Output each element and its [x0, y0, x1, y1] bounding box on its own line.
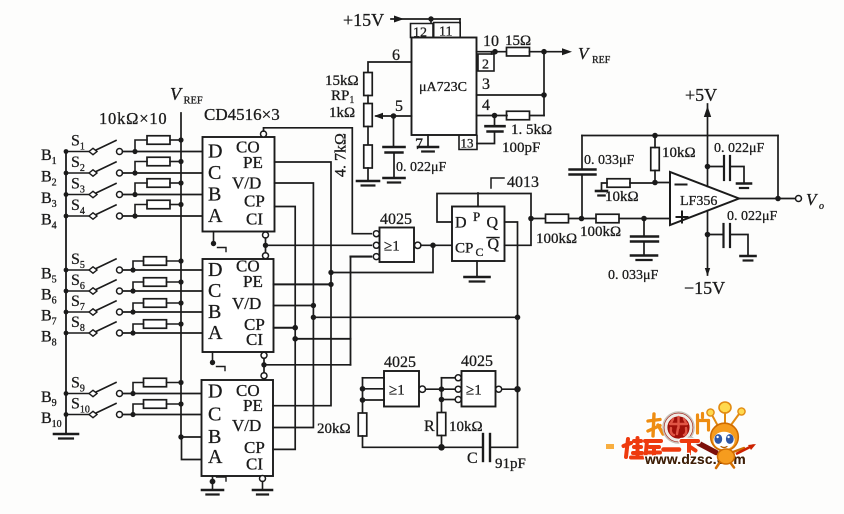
- resistor 10k (B5): [144, 257, 167, 266]
- junction B10 node: [130, 412, 135, 417]
- junction U5 out: [430, 243, 436, 249]
- svg-text:1kΩ: 1kΩ: [329, 105, 355, 121]
- wire node to - input: [655, 182, 670, 184]
- junction rail / 10k: [652, 133, 658, 139]
- junction chain U2-U3: [261, 362, 266, 367]
- junction VREF rail (B10): [178, 401, 183, 406]
- svg-text:CI: CI: [246, 455, 263, 474]
- junction bus B4: [64, 214, 69, 219]
- junction B7 node: [130, 309, 135, 314]
- op-amp U7 LF356: [670, 172, 739, 225]
- svg-text:REF: REF: [184, 96, 203, 107]
- svg-text:+5V: +5V: [685, 85, 717, 105]
- svg-text:91pF: 91pF: [495, 456, 526, 472]
- wire S2 to counter: [123, 172, 203, 174]
- svg-text:13: 13: [461, 136, 474, 151]
- wire S4 to counter: [123, 215, 203, 217]
- junction V/D bus (U2): [311, 303, 316, 308]
- resistor 10k (B10): [144, 400, 167, 409]
- power -15V: [707, 211, 709, 275]
- pin box 13: [459, 136, 477, 151]
- wire 4013 C to ground: [476, 261, 478, 276]
- wire V/D bus: [273, 183, 313, 428]
- junction pin10/pin2: [492, 49, 498, 55]
- wire CP bus: [273, 207, 295, 450]
- wire U8 input column: [362, 378, 364, 413]
- switch S7: [66, 301, 123, 315]
- wire resistor left (B7): [133, 303, 144, 312]
- flip-flop U6 4013: [452, 207, 505, 262]
- junction B1 node: [132, 149, 137, 154]
- svg-text:1. 5kΩ: 1. 5kΩ: [511, 122, 552, 138]
- wire resistor left (B10): [133, 404, 144, 415]
- wire VREF node to 1.5k: [530, 115, 545, 117]
- junction rail bottom: [178, 434, 183, 439]
- wire pin 10: [477, 51, 508, 53]
- wire U9 in1: [442, 377, 456, 379]
- resistor 15 Ohm: [507, 47, 530, 56]
- resistor 10k (B6): [144, 278, 167, 287]
- svg-text:0. 033μF: 0. 033μF: [584, 153, 635, 168]
- pin box 11: [434, 23, 461, 40]
- resistor 15k: [364, 73, 373, 96]
- wire PE bus: [273, 162, 331, 406]
- junction VREF rail (B8): [178, 321, 183, 326]
- svg-text:0. 022μF: 0. 022μF: [714, 141, 765, 156]
- svg-text:0. 022μF: 0. 022μF: [727, 209, 778, 224]
- resistor 10k (B1): [147, 136, 170, 145]
- wire resistor left (B1): [135, 140, 147, 152]
- svg-text:+15V: +15V: [343, 10, 384, 30]
- ground (4.7k): [357, 181, 379, 186]
- wire U8 in1: [363, 377, 385, 379]
- capacitor C 91pF: [483, 434, 518, 461]
- pin circle U5 in1: [373, 231, 379, 237]
- wire CI branch: [295, 338, 350, 340]
- wire pin 3: [477, 94, 545, 96]
- junction B5 node: [130, 267, 135, 272]
- resistor 10k (B3): [147, 179, 170, 188]
- wire Q-bar to V/D bus: [313, 316, 517, 318]
- wire resistor to VREF rail (B4): [170, 204, 181, 206]
- wire Q-bar to D loop: [437, 194, 531, 223]
- wire Q out feedback: [505, 222, 518, 447]
- capacitor 0.033uF (2): [631, 219, 658, 255]
- junction chain U1-U2: [263, 243, 268, 248]
- wire 10k to - node: [654, 171, 656, 183]
- junction U9 col a: [439, 386, 445, 392]
- capacitor 0.033uF (1): [570, 136, 596, 219]
- potentiometer RP1: [364, 104, 373, 127]
- junction PE bus (U2): [328, 282, 333, 287]
- wire gate U5 input 3 drop: [350, 257, 352, 365]
- wire R to RC line: [441, 436, 443, 448]
- junction 100k mid: [579, 216, 585, 222]
- svg-text:15kΩ: 15kΩ: [325, 73, 359, 89]
- svg-text:CP: CP: [455, 241, 473, 257]
- wire U8 out to U9: [426, 388, 456, 390]
- junction U8 inputs a: [360, 386, 366, 392]
- junction VREF rail (B3): [178, 180, 183, 185]
- wire resistor left (B2): [135, 162, 147, 174]
- wire S8 to counter: [123, 332, 203, 334]
- pin circle U5 in3: [373, 254, 379, 260]
- wire VREF node drop: [543, 52, 545, 116]
- wire CP (U2): [274, 327, 296, 329]
- svg-text:B: B: [208, 426, 221, 448]
- switch S4: [66, 205, 123, 219]
- capacitor 0.022uF (1): [708, 156, 745, 183]
- capacitor 0.022uF (723): [384, 116, 405, 177]
- wire P stub: [477, 193, 479, 207]
- wire U5 out to 4013 CP: [421, 244, 452, 246]
- wiper arrow RP1: [376, 115, 394, 117]
- wire resistor left (B5): [133, 261, 144, 270]
- svg-text:C: C: [208, 404, 221, 426]
- junction pin 4: [492, 113, 498, 119]
- wire PE (U2): [274, 283, 332, 285]
- node PL stub (U1): [211, 232, 226, 252]
- junction bus B8: [64, 331, 69, 336]
- svg-text:D: D: [208, 259, 222, 281]
- svg-text:≥1: ≥1: [384, 239, 400, 255]
- junction bus B9: [64, 391, 69, 396]
- ground (cap1): [737, 184, 751, 189]
- wire resistor to VREF rail (B7): [167, 302, 182, 304]
- junction bus B3: [64, 192, 69, 197]
- resistor 10k (B4): [147, 200, 170, 209]
- junction VREF rail (B2): [178, 159, 183, 164]
- wire S9 to counter: [123, 393, 202, 395]
- svg-text:V/D: V/D: [232, 294, 261, 313]
- svg-text:15Ω: 15Ω: [505, 33, 531, 49]
- wire U8 in3: [363, 399, 385, 401]
- junction VREF rail (B1): [178, 137, 183, 142]
- wire chain from Q-bar node: [531, 218, 545, 220]
- wire pin 7: [427, 135, 429, 146]
- svg-text:V/D: V/D: [232, 174, 261, 193]
- svg-text:CI: CI: [246, 210, 263, 229]
- svg-text:C: C: [467, 450, 478, 467]
- svg-text:C: C: [476, 245, 484, 259]
- svg-text:3: 3: [482, 76, 490, 93]
- junction U9 col b: [439, 397, 445, 403]
- wire S6 to counter: [123, 290, 203, 292]
- junction Q-bar / chain: [528, 216, 534, 222]
- pin circle U9 in1: [455, 375, 461, 381]
- switch S6: [66, 280, 123, 294]
- ground (input bus): [54, 434, 78, 439]
- resistor 10k (to gnd): [607, 179, 630, 188]
- svg-text:R: R: [424, 418, 435, 435]
- ground (4013): [465, 277, 490, 282]
- svg-text:100kΩ: 100kΩ: [580, 224, 621, 240]
- wire chain U2-U3 to CI bus: [264, 364, 351, 366]
- svg-text:4013: 4013: [507, 174, 539, 191]
- junction RC line: [438, 444, 445, 451]
- junction B2 node: [132, 170, 137, 175]
- junction B6 node: [130, 288, 135, 293]
- wire resistor left (B8): [133, 324, 144, 333]
- svg-text:0. 033μF: 0. 033μF: [608, 268, 659, 283]
- junction bus B10: [64, 412, 69, 417]
- svg-text:10kΩ: 10kΩ: [662, 145, 696, 161]
- label 4013: [491, 178, 504, 188]
- ground (U3 right): [253, 490, 272, 495]
- wire pin11 stub: [459, 19, 461, 23]
- resistor 10k (op-amp fb): [651, 148, 660, 171]
- junction Q-bar / gate U9 out: [514, 386, 520, 392]
- wire 15 Ohm to VREF node: [530, 51, 545, 53]
- svg-text:P: P: [473, 209, 480, 224]
- wire chain to gate U5 input 2: [266, 244, 372, 246]
- resistor 10k (B9): [144, 378, 167, 387]
- wire S10 to counter: [123, 414, 202, 416]
- wire resistor to VREF rail (B8): [167, 323, 182, 325]
- capacitor 100pF: [477, 116, 505, 144]
- node VREF output: [544, 51, 566, 53]
- svg-text:100pF: 100pF: [502, 140, 540, 156]
- wire U8 in2: [363, 388, 385, 390]
- svg-text:10kΩ: 10kΩ: [449, 419, 483, 435]
- junction +15V / pin 12-11: [428, 16, 433, 21]
- svg-text:10kΩ×10: 10kΩ×10: [99, 109, 167, 128]
- wire Q-bar out: [505, 219, 532, 246]
- svg-text:≥1: ≥1: [389, 383, 405, 399]
- wire resistor to VREF rail (B2): [170, 161, 181, 163]
- pin circle U5 out: [415, 242, 421, 248]
- svg-text:μA723C: μA723C: [419, 80, 467, 95]
- switch S2: [66, 162, 123, 176]
- wire U9 in3: [442, 399, 456, 401]
- pin circle U9 in2: [455, 386, 461, 392]
- svg-text:PE: PE: [243, 396, 263, 415]
- pin circle U9 out: [496, 386, 502, 392]
- wire U9 out: [502, 388, 518, 390]
- pin circle (U2 bottom): [261, 352, 267, 358]
- junction B3 node: [132, 192, 137, 197]
- junction VREF rail (B5): [178, 258, 183, 263]
- junction bus B1: [64, 149, 69, 154]
- svg-text:100kΩ: 100kΩ: [536, 231, 577, 247]
- net VREF rail: [180, 113, 182, 437]
- pin box 12: [411, 24, 434, 41]
- junction bus B6: [64, 289, 69, 294]
- junction pin 3: [541, 92, 547, 98]
- wire rail to A pin (U3): [182, 437, 202, 460]
- svg-text:LF356: LF356: [680, 194, 717, 209]
- nor gate U8 4025: [384, 371, 419, 407]
- resistor 20k: [358, 413, 367, 436]
- wire resistor left (B6): [133, 282, 144, 291]
- switch S5: [66, 259, 123, 273]
- nor gate U5 4025: [380, 228, 415, 263]
- ground (0.022 723): [384, 178, 405, 183]
- wire 20k to RC line: [363, 436, 483, 447]
- svg-text:B: B: [208, 301, 221, 323]
- watermark logo www.dzsc.com: [606, 402, 756, 468]
- node PL stub + ground (U3): [210, 476, 226, 489]
- wire S1 to counter: [123, 151, 203, 153]
- svg-text:CI: CI: [246, 330, 263, 349]
- junction CP bus (U2): [292, 325, 298, 331]
- junction + input / cap: [641, 216, 647, 222]
- capacitor 0.022uF (2): [708, 224, 749, 255]
- resistor 100k (1): [546, 214, 569, 223]
- svg-text:CP: CP: [244, 192, 265, 211]
- svg-text:A: A: [208, 446, 223, 468]
- switch S8: [66, 322, 123, 336]
- junction B8 node: [130, 330, 135, 335]
- junction V/D bus / Q-bar: [311, 315, 316, 320]
- junction bus B2: [64, 171, 69, 176]
- wire rail to 10k: [654, 136, 656, 148]
- svg-text:4025: 4025: [384, 354, 416, 371]
- pin circle (U3 bottom): [260, 476, 266, 482]
- svg-text:B: B: [208, 184, 221, 206]
- wire V/D (U2): [274, 305, 314, 307]
- wire chain U1-U2: [265, 238, 267, 253]
- junction VREF rail (B6): [178, 279, 183, 284]
- junction bus B5: [64, 268, 69, 273]
- svg-text:20kΩ: 20kΩ: [317, 421, 351, 437]
- pin circle (U3 top): [261, 373, 267, 379]
- svg-text:D: D: [208, 381, 222, 403]
- wire rail to B pin (U3): [181, 436, 202, 438]
- svg-text:4025: 4025: [380, 211, 412, 228]
- junction - input node: [652, 180, 658, 186]
- junction VREF rail (B9): [178, 380, 183, 385]
- switch S10: [66, 404, 123, 418]
- junction U8 inputs b: [360, 397, 366, 403]
- junction VREF node: [541, 49, 547, 55]
- svg-text:2: 2: [482, 58, 489, 73]
- wire U5 out to PE bus: [331, 245, 433, 272]
- svg-text:C: C: [208, 280, 221, 302]
- svg-text:PE: PE: [243, 153, 263, 172]
- terminal Vo: [796, 196, 802, 202]
- junction output / feedback: [775, 196, 781, 202]
- wire 15k-RP1: [367, 96, 369, 105]
- wire S7 to counter: [123, 311, 203, 313]
- pin circle U5 in2: [373, 242, 379, 248]
- wire output: [739, 198, 796, 200]
- regulator U4 uA723C: [412, 38, 477, 136]
- switch S9: [66, 383, 123, 397]
- svg-text:D: D: [455, 215, 467, 232]
- switch S3: [66, 184, 123, 198]
- wire pin 6: [368, 62, 412, 73]
- pin circle (U2 top): [263, 253, 269, 259]
- wire gate U5 input 3: [351, 256, 372, 258]
- ground (cap2): [741, 256, 756, 261]
- svg-text:Q: Q: [488, 236, 500, 253]
- svg-text:4025: 4025: [461, 353, 493, 370]
- counter U3 CD4516: [202, 380, 274, 476]
- junction PE bus / gate out: [328, 270, 333, 275]
- junction bus B7: [64, 310, 69, 315]
- node PL stub (U2): [210, 352, 225, 371]
- svg-text:A: A: [208, 205, 223, 227]
- wire U9 input column: [441, 378, 443, 412]
- wire 10k to node: [630, 182, 655, 185]
- wire S3 to counter: [123, 194, 203, 196]
- junction +5V / cap: [705, 164, 711, 170]
- wire feedback rail: [582, 135, 778, 137]
- resistor 10k (B8): [144, 320, 167, 329]
- resistor 4.7k: [364, 145, 373, 168]
- ground (pin 7): [418, 147, 438, 152]
- svg-text:5: 5: [395, 98, 403, 115]
- wire to op-amp +: [620, 218, 670, 220]
- pin circle (U1 bottom): [263, 232, 269, 238]
- svg-text:10kΩ: 10kΩ: [605, 189, 639, 205]
- resistor 100k (2): [596, 214, 619, 223]
- svg-text:0. 022μF: 0. 022μF: [396, 160, 447, 175]
- wire pin 5: [394, 115, 412, 117]
- svg-text:REF: REF: [592, 55, 611, 66]
- wire between 100k: [569, 218, 596, 220]
- svg-text:D: D: [208, 141, 222, 163]
- svg-text:Q: Q: [487, 215, 499, 232]
- switch S1: [66, 141, 123, 155]
- counter U2 CD4516: [203, 257, 274, 353]
- svg-text:PE: PE: [243, 272, 263, 291]
- wire S5 to counter: [123, 269, 203, 271]
- wire CO1 to gate U5 input 1: [264, 128, 372, 234]
- ground (10k): [596, 191, 607, 196]
- resistor R 10k: [437, 413, 446, 436]
- svg-text:CD4516×3: CD4516×3: [204, 105, 280, 124]
- junction VREF rail (B4): [178, 202, 183, 207]
- junction Q-bar / V-D line: [515, 315, 521, 321]
- wire resistor to VREF rail (B10): [167, 403, 182, 405]
- counter U1 CD4516: [203, 137, 275, 232]
- wire feedback drop: [777, 136, 779, 199]
- wire input bus: [65, 152, 67, 434]
- ground (U3 left): [202, 490, 223, 495]
- wire resistor to VREF rail (B5): [167, 260, 182, 262]
- svg-text:4: 4: [482, 97, 490, 114]
- junction CP bus / CI branch: [292, 336, 298, 342]
- svg-text:A: A: [208, 322, 223, 344]
- wire resistor to VREF rail (B1): [170, 139, 181, 141]
- junction pin5 node: [391, 113, 397, 119]
- resistor 1.5k: [507, 111, 530, 120]
- pin box 2: [478, 52, 494, 73]
- resistor 10k (B2): [147, 157, 170, 166]
- junction B4 node: [132, 213, 137, 218]
- pin CO (U1 top): [261, 131, 267, 137]
- svg-text:V/D: V/D: [232, 416, 261, 435]
- wire pin12 stub: [430, 19, 432, 23]
- wire resistor to VREF rail (B3): [170, 182, 181, 184]
- wire resistor left (B9): [133, 383, 144, 394]
- wire resistor left (B4): [135, 205, 147, 217]
- svg-text:10: 10: [483, 33, 499, 50]
- svg-text:−15V: −15V: [684, 278, 725, 298]
- svg-text:4. 7kΩ: 4. 7kΩ: [333, 133, 350, 177]
- resistor 10k (B7): [144, 299, 167, 308]
- wire 4.7k-ground: [367, 168, 369, 180]
- junction -15V / cap: [705, 232, 711, 238]
- nor gate U9 4025: [462, 371, 496, 407]
- wire RP1-4.7k: [367, 127, 369, 146]
- junction B9 node: [130, 391, 135, 396]
- ground (cap 0.033 2): [631, 256, 657, 261]
- pin circle U8 out: [419, 386, 425, 392]
- wire pin 4: [477, 115, 508, 117]
